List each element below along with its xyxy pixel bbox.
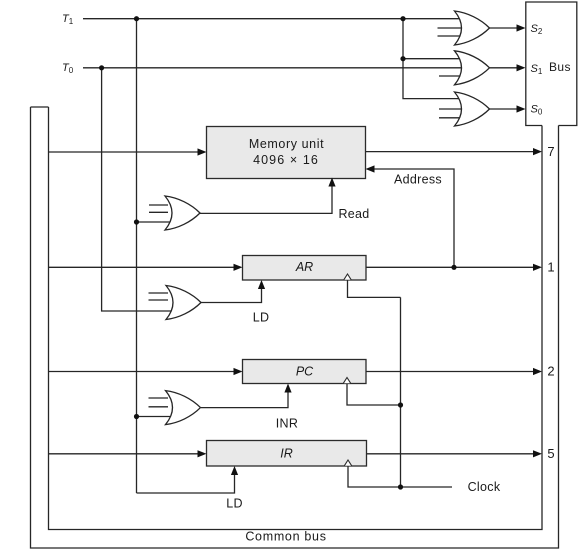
svg-text:INR: INR [276, 417, 298, 431]
svg-text:LD: LD [253, 311, 270, 325]
svg-text:Bus: Bus [549, 60, 571, 74]
svg-text:T1: T1 [62, 13, 74, 26]
svg-text:4096 × 16: 4096 × 16 [253, 153, 319, 167]
svg-text:1: 1 [547, 260, 554, 275]
svg-text:7: 7 [547, 144, 554, 159]
svg-text:PC: PC [296, 364, 314, 378]
svg-text:T0: T0 [62, 62, 74, 75]
svg-text:Address: Address [394, 173, 442, 187]
svg-text:IR: IR [280, 447, 293, 461]
svg-text:AR: AR [295, 260, 313, 274]
svg-text:LD: LD [226, 497, 243, 511]
svg-text:5: 5 [547, 446, 554, 461]
svg-text:Common bus: Common bus [245, 530, 326, 544]
svg-text:Memory unit: Memory unit [249, 137, 324, 151]
svg-text:Read: Read [338, 207, 369, 221]
svg-text:Clock: Clock [468, 480, 501, 494]
svg-text:2: 2 [547, 364, 554, 379]
